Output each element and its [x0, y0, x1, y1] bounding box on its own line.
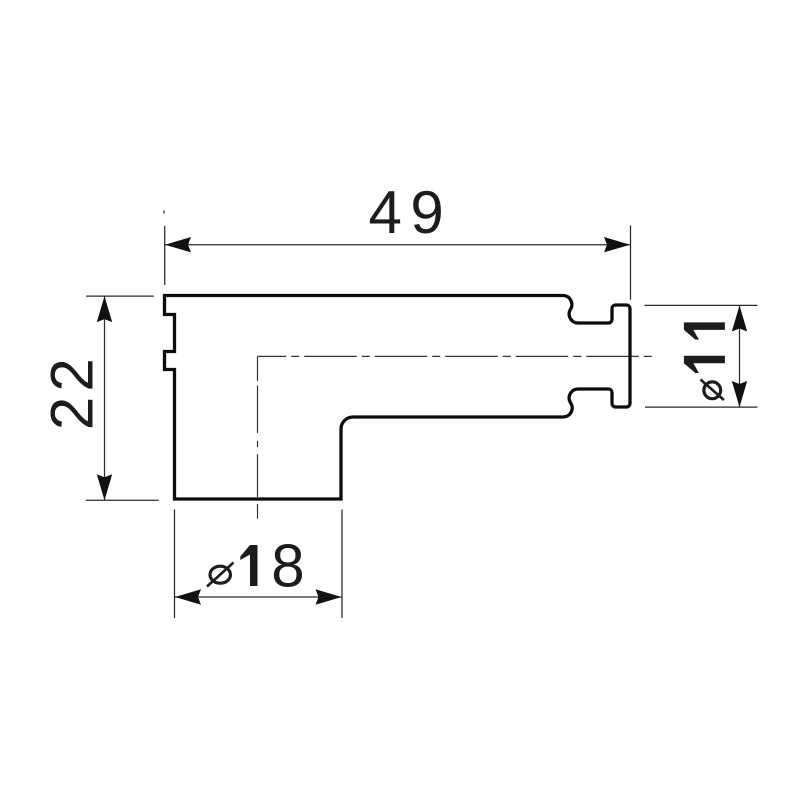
svg-text:8: 8: [271, 533, 304, 600]
